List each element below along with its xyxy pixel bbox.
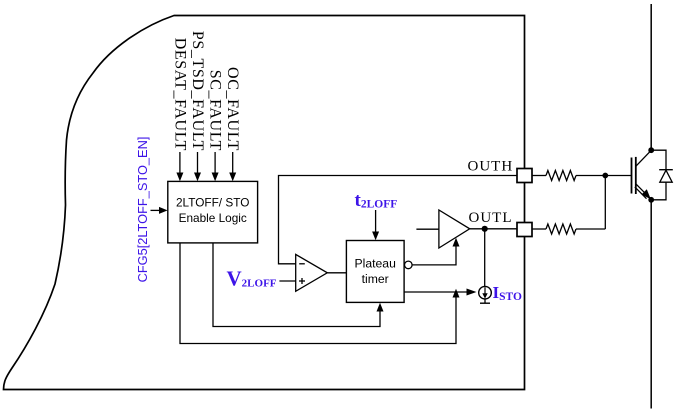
wire SC_FAULT arrow into enable logic bbox=[212, 152, 219, 181]
wire OUTL junction to ISTO bbox=[484, 229, 486, 287]
chip boundary outline bbox=[4, 16, 525, 390]
wire CFG5 arrow into enable logic bbox=[151, 207, 168, 214]
pad OUTH bbox=[517, 169, 532, 183]
wire buffer input stub bbox=[416, 228, 439, 230]
wire DESAT_FAULT arrow into enable logic bbox=[176, 152, 183, 181]
node collector junction bbox=[648, 147, 654, 153]
svg-text:DESAT_FAULT: DESAT_FAULT bbox=[171, 38, 188, 151]
wire plateau timer bubble to buffer bbox=[412, 238, 459, 265]
wire A enable logic to ISTO net bbox=[180, 243, 460, 344]
wire PS_TSD_FAULT arrow into enable logic bbox=[194, 152, 201, 181]
svg-text:SC_FAULT: SC_FAULT bbox=[207, 70, 224, 151]
svg-text:CFG5[2LTOFF_STO_EN]: CFG5[2LTOFF_STO_EN] bbox=[135, 137, 150, 283]
wire OUTL net buffer to pad bbox=[470, 228, 517, 230]
wire OUTH feedback to comparator minus input bbox=[279, 176, 518, 264]
pad OUTL bbox=[517, 223, 532, 237]
wire B enable logic to plateau timer bbox=[213, 243, 384, 327]
resistor R1 (OUTH gate resistor) bbox=[532, 171, 602, 181]
node OUTL junction bbox=[482, 226, 488, 232]
current source ISTO bbox=[479, 286, 492, 303]
wire gate node to IGBT gate bbox=[603, 175, 631, 177]
buffer U4 bbox=[439, 210, 470, 248]
svg-text:OUTH: OUTH bbox=[468, 159, 514, 175]
node gate junction bbox=[602, 173, 608, 179]
wire t2LOFF arrow into plateau timer bbox=[372, 210, 379, 240]
plateau timer U3 bbox=[346, 241, 404, 303]
wire emitter bus bbox=[650, 200, 652, 409]
svg-text:Plateau: Plateau bbox=[355, 257, 396, 271]
transistor Q1 IGBT bbox=[632, 150, 652, 199]
comparator U2 bbox=[296, 254, 328, 291]
wire R2 riser to gate node bbox=[604, 176, 606, 230]
svg-text:timer: timer bbox=[362, 272, 389, 286]
resistor R2 (OUTL gate resistor) bbox=[532, 224, 605, 234]
wire collector bus bbox=[650, 4, 652, 150]
svg-text:Enable Logic: Enable Logic bbox=[179, 211, 247, 225]
wire plateau timer to ISTO arrow bbox=[404, 289, 476, 296]
svg-text:PS_TSD_FAULT: PS_TSD_FAULT bbox=[189, 31, 206, 151]
inverter bubble on plateau timer output bbox=[405, 261, 413, 269]
wire comparator output to plateau timer bbox=[327, 272, 346, 274]
svg-text:OUTL: OUTL bbox=[469, 210, 513, 226]
svg-text:2LTOFF/ STO: 2LTOFF/ STO bbox=[176, 195, 249, 209]
wire OC_FAULT arrow into enable logic bbox=[229, 152, 236, 181]
block U1 2LTOFF/STO Enable Logic bbox=[168, 181, 258, 243]
diode D1 freewheeling bbox=[651, 150, 673, 200]
wire V2LOFF to comparator plus input bbox=[279, 280, 295, 282]
node emitter junction bbox=[648, 197, 654, 203]
svg-text:OC_FAULT: OC_FAULT bbox=[224, 67, 241, 151]
